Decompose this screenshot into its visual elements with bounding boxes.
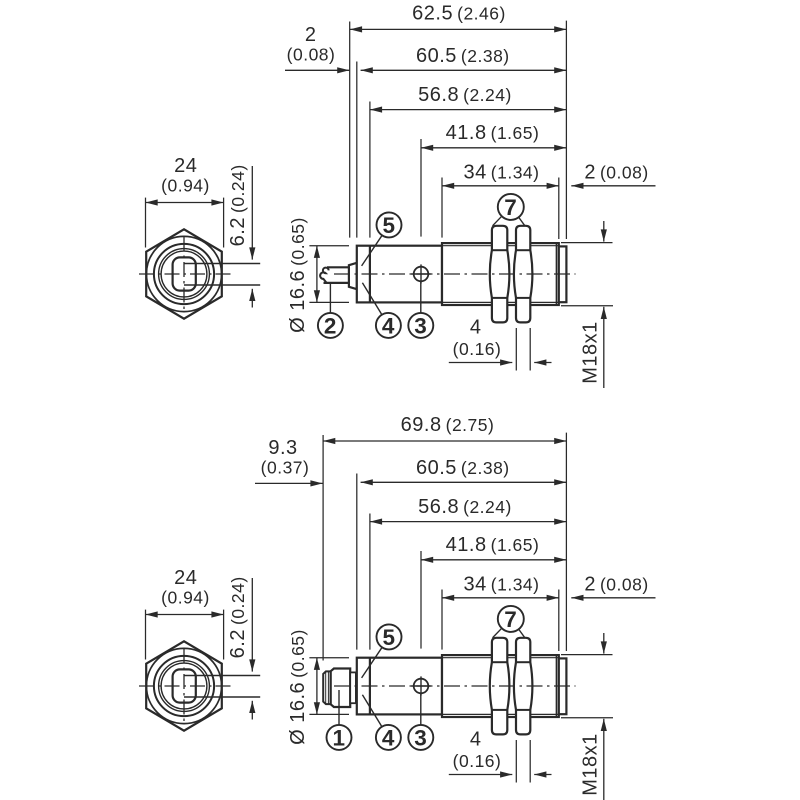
nut chamfer circle	[146, 648, 221, 723]
dim 41.8 line	[421, 147, 566, 149]
dim 69.8 line	[323, 440, 566, 442]
callout 7 leaders	[493, 216, 502, 226]
ext line housing face	[356, 474, 358, 650]
sensor barrel body (top)	[357, 246, 442, 303]
ext line 41.8 / LED	[420, 139, 422, 237]
svg-text:24: 24	[174, 155, 197, 177]
svg-text:(0.16): (0.16)	[453, 751, 502, 771]
callout 3	[408, 313, 433, 339]
callout 4 leader	[362, 283, 382, 315]
hexagon nut outline	[146, 229, 222, 318]
dim Ø 16.6 (0.65)	[309, 245, 349, 247]
svg-text:2 (0.08): 2 (0.08)	[584, 573, 648, 595]
dim 6.2 (0.24) line + arrows	[251, 166, 253, 260]
dim 41.8 line	[421, 559, 566, 561]
svg-text:5: 5	[382, 213, 395, 238]
front rim circles	[159, 249, 210, 300]
dim 56.8 line	[370, 109, 567, 111]
svg-text:M18x1: M18x1	[580, 733, 602, 796]
callout 7	[498, 606, 524, 632]
hex view centerlines	[139, 685, 231, 687]
callout 2 leader	[329, 284, 331, 313]
nut chamfer circle	[146, 236, 221, 311]
svg-text:2 (0.08): 2 (0.08)	[584, 161, 648, 183]
svg-text:(0.94): (0.94)	[161, 588, 210, 608]
svg-text:60.5 (2.38): 60.5 (2.38)	[416, 457, 510, 479]
ext line right face	[565, 433, 567, 651]
threaded section M18	[442, 243, 559, 305]
hex nut 2	[514, 638, 533, 735]
dim 56.8 line	[370, 521, 567, 523]
hex view centerlines	[139, 273, 231, 275]
ext line right face	[565, 21, 567, 239]
end cap joint line	[369, 246, 371, 303]
dim 60.5 line	[361, 481, 567, 483]
dim 2 left arrow	[285, 69, 349, 71]
callout 7 leaders	[493, 628, 502, 638]
hex nut 1	[490, 638, 510, 735]
svg-text:24: 24	[174, 567, 197, 589]
svg-text:(0.37): (0.37)	[261, 458, 310, 478]
svg-text:3: 3	[414, 314, 427, 339]
svg-text:Ø 16.6 (0.65): Ø 16.6 (0.65)	[287, 629, 309, 745]
ext line 41.8 / LED	[420, 551, 422, 649]
ext line plug face	[322, 435, 324, 661]
svg-text:34 (1.34): 34 (1.34)	[464, 161, 540, 183]
cable top edge	[327, 266, 350, 268]
svg-text:41.8 (1.65): 41.8 (1.65)	[446, 534, 540, 556]
svg-text:2: 2	[324, 314, 337, 339]
dim 9.3 arrow	[255, 482, 323, 484]
callout 3	[408, 725, 433, 751]
front rim circles	[159, 661, 210, 712]
cable end curls	[320, 268, 328, 283]
slot edge / 6.2 extension lines	[184, 675, 260, 677]
callout 1	[327, 725, 352, 751]
dim M18x1	[561, 242, 613, 244]
M12 plug collar	[350, 672, 356, 703]
dim 6.2 (0.24) line + arrows	[251, 578, 253, 672]
connector tip (2mm)	[559, 246, 567, 302]
slot edge / 6.2 extension lines	[184, 263, 260, 265]
thread outer circle	[154, 244, 214, 304]
svg-text:6.2 (0.24): 6.2 (0.24)	[227, 164, 249, 246]
svg-text:2: 2	[305, 24, 317, 46]
svg-text:56.8 (2.24): 56.8 (2.24)	[418, 496, 512, 518]
callout 4	[376, 313, 401, 339]
dim 4 (0.16) nut width	[515, 328, 517, 371]
LED indicator	[411, 264, 430, 283]
cable bottom edge	[324, 282, 350, 284]
ext line thread start	[441, 590, 443, 650]
callout 7	[498, 194, 524, 220]
svg-text:Ø 16.6 (0.65): Ø 16.6 (0.65)	[287, 217, 309, 333]
hex nut 1	[490, 226, 510, 323]
ext line thread start	[441, 178, 443, 238]
thread root lines	[442, 657, 559, 659]
svg-text:(0.94): (0.94)	[161, 176, 210, 196]
centerline	[334, 273, 576, 275]
svg-text:4: 4	[470, 316, 482, 338]
svg-text:4: 4	[382, 726, 395, 751]
thread root lines	[442, 245, 559, 247]
dim Ø 16.6 (0.65)	[309, 657, 349, 659]
ext line 56.8	[369, 514, 371, 650]
svg-text:56.8 (2.24): 56.8 (2.24)	[418, 84, 512, 106]
sensor core capsule	[173, 669, 196, 702]
svg-text:5: 5	[382, 625, 395, 650]
svg-text:7: 7	[504, 195, 517, 220]
ext line thread end	[558, 178, 560, 240]
svg-text:4: 4	[470, 728, 482, 750]
dim 62.5 line	[350, 28, 567, 30]
ext line thread end	[558, 590, 560, 652]
threaded section M18	[442, 655, 559, 717]
svg-text:1: 1	[332, 726, 345, 751]
ext line 56.8	[369, 102, 371, 238]
dim 2 right arrow	[571, 185, 655, 187]
ext line housing face	[356, 62, 358, 238]
dim 34 line	[442, 597, 559, 599]
dim 24 (0.94) ext lines	[145, 198, 147, 248]
connector tip (2mm)	[559, 658, 567, 714]
cable gland	[349, 263, 357, 289]
ext line cable gland tip	[349, 22, 351, 238]
dim 4 (0.16) nut width	[515, 740, 517, 783]
svg-text:(0.16): (0.16)	[453, 339, 502, 359]
svg-text:60.5 (2.38): 60.5 (2.38)	[416, 45, 510, 67]
dim 60.5 line	[361, 69, 567, 71]
dim 24 (0.94) line	[146, 202, 224, 204]
callout 3 leader	[420, 694, 422, 725]
callout 5	[377, 212, 402, 238]
plug thread line	[327, 672, 329, 704]
callout 4	[376, 725, 401, 751]
callout 1 leader	[338, 690, 340, 725]
dim 34 line	[442, 185, 559, 187]
M12 plug thread	[323, 671, 331, 704]
thread runout line	[555, 655, 557, 717]
dim 2 right arrow	[571, 597, 655, 599]
thread runout line	[555, 243, 557, 305]
hex nut 2	[514, 226, 533, 323]
sensor barrel body (bottom)	[357, 658, 442, 715]
callout 5 leader (bottom)	[362, 647, 383, 678]
callout 5 leader (top)	[362, 235, 383, 266]
hexagon nut outline	[146, 641, 222, 730]
callout 2	[318, 313, 343, 339]
svg-text:69.8 (2.75): 69.8 (2.75)	[401, 414, 495, 436]
M12 plug knurl	[331, 669, 351, 708]
LED indicator	[411, 676, 430, 695]
callout 5	[377, 624, 402, 650]
plug thread line	[325, 672, 327, 704]
svg-text:7: 7	[504, 607, 517, 632]
dim 24 (0.94) line	[146, 614, 224, 616]
callout 4 leader	[362, 695, 382, 727]
centerline	[334, 685, 576, 687]
svg-text:34 (1.34): 34 (1.34)	[464, 573, 540, 595]
dim 24 (0.94) ext lines	[145, 610, 147, 660]
thread outer circle	[154, 656, 214, 716]
callout 3 leader	[420, 282, 422, 313]
svg-text:6.2 (0.24): 6.2 (0.24)	[227, 576, 249, 658]
sensor core capsule	[173, 257, 196, 290]
dim M18x1	[561, 654, 613, 656]
svg-text:41.8 (1.65): 41.8 (1.65)	[446, 122, 540, 144]
svg-text:M18x1: M18x1	[580, 321, 602, 384]
svg-text:4: 4	[382, 314, 395, 339]
svg-text:3: 3	[414, 726, 427, 751]
svg-text:62.5 (2.46): 62.5 (2.46)	[412, 2, 506, 24]
svg-text:(0.08): (0.08)	[287, 45, 336, 65]
svg-text:9.3: 9.3	[268, 437, 297, 459]
end cap joint line	[369, 658, 371, 715]
